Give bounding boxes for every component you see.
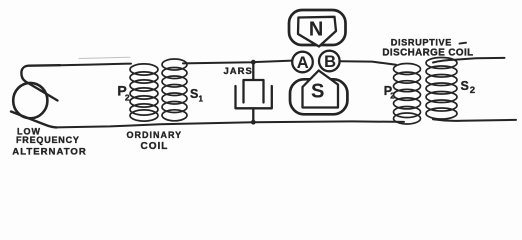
svg-text:JARS: JARS bbox=[224, 66, 253, 77]
label ORDINARY COIL bbox=[127, 130, 183, 152]
svg-text:A: A bbox=[297, 54, 309, 72]
wire jars bottom stem bbox=[252, 108, 254, 122]
svg-text:COIL: COIL bbox=[141, 141, 169, 152]
svg-text:1: 1 bbox=[199, 95, 204, 104]
spark ball A bbox=[292, 52, 313, 73]
coil S1, secondary of ordinary coil bbox=[162, 59, 187, 121]
svg-text:DISRUPTIVE: DISRUPTIVE bbox=[391, 37, 452, 47]
label LOW FREQUENCY ALTERNATOR bbox=[12, 127, 87, 158]
svg-text:2: 2 bbox=[390, 91, 395, 100]
magnet pole N (blob, pentagon, letter) bbox=[289, 10, 346, 47]
node jars top junction bbox=[251, 60, 256, 65]
svg-text:N: N bbox=[309, 18, 323, 40]
label S2 bbox=[461, 79, 476, 96]
capacitor JARS outer electrode bbox=[236, 86, 272, 108]
label P1 (printed "P2") bbox=[117, 83, 129, 103]
coil P1, primary of ordinary coil bbox=[130, 64, 158, 121]
svg-text:FREQUENCY: FREQUENCY bbox=[16, 135, 80, 145]
svg-text:2: 2 bbox=[470, 85, 475, 96]
wire bottom bus from alternator to P2 bottom bbox=[57, 121, 405, 127]
coil P2, primary of disruptive discharge coil bbox=[394, 64, 421, 125]
label P2 bbox=[384, 84, 395, 100]
svg-text:2: 2 bbox=[125, 93, 130, 103]
wire bottom lead of alternator (tangent + hook) bbox=[11, 112, 57, 128]
label DISRUPTIVE DISCHARGE COIL bbox=[382, 37, 473, 58]
wire from ball B to P2 top bbox=[341, 61, 397, 65]
wire output bottom terminal from S2 bbox=[433, 119, 516, 121]
label S1 bbox=[190, 87, 204, 104]
wire output top terminal from S2 bbox=[433, 58, 505, 63]
svg-text:S: S bbox=[461, 79, 469, 93]
svg-text:ORDINARY: ORDINARY bbox=[127, 130, 183, 140]
capacitor JARS inner electrode bbox=[244, 80, 264, 103]
svg-text:B: B bbox=[324, 53, 336, 71]
svg-text:S: S bbox=[311, 81, 324, 103]
svg-text:ALTERNATOR: ALTERNATOR bbox=[12, 147, 87, 158]
svg-text:DISCHARGE COIL: DISCHARGE COIL bbox=[382, 48, 473, 59]
wire top lead of alternator (hook + tangent into circle) bbox=[21, 65, 60, 100]
wire secondary top: S1 to spark ball A bbox=[183, 61, 292, 64]
node jars bottom junction bbox=[251, 120, 256, 125]
spark ball B bbox=[319, 51, 340, 72]
svg-text:S: S bbox=[190, 87, 198, 101]
coil S2, secondary of disruptive discharge coil bbox=[426, 58, 457, 120]
magnet pole S (blob, pentagon, letter) bbox=[290, 71, 347, 115]
wire jars top stem bbox=[252, 62, 254, 80]
wire dash after DISRUPTIVE bbox=[460, 42, 467, 45]
wire faint upper trace bbox=[79, 57, 130, 58]
alternator G1 circle bbox=[13, 83, 47, 118]
wire from alternator to primary P1 top bbox=[60, 64, 131, 66]
